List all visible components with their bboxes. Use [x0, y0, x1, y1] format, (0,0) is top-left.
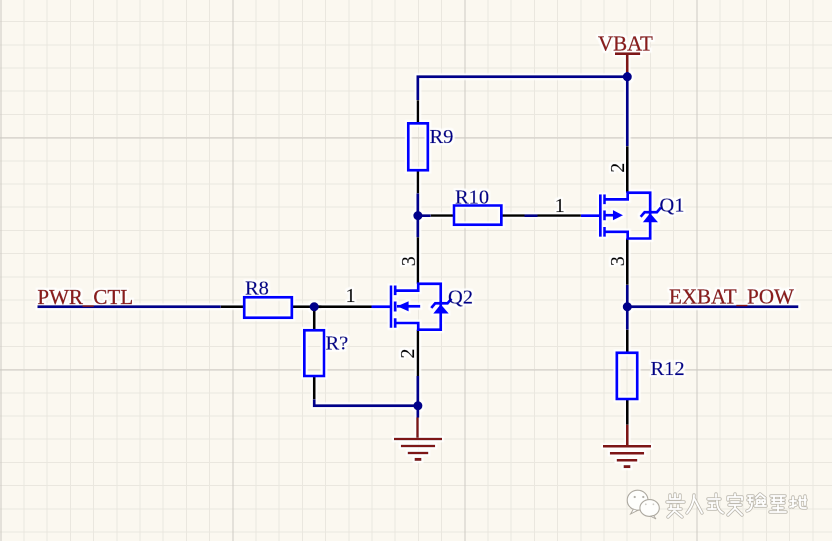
svg-text:1: 1: [555, 195, 565, 217]
svg-text:3: 3: [398, 256, 420, 266]
wechat bubble icon: [627, 490, 659, 519]
wire PWR_CTL rail: [38, 305, 322, 308]
resistor R12: [617, 353, 637, 399]
transistor Q1 (P-MOSFET): [600, 146, 661, 285]
wire EXBAT rail: [627, 305, 798, 308]
resistor R?: [304, 330, 324, 376]
svg-text:R10: R10: [455, 187, 489, 209]
watermark text 嵌入式实验基地 (approximated glyph strokes): [667, 494, 806, 517]
resistor R10: [454, 206, 501, 225]
svg-text:PWR_CTL: PWR_CTL: [37, 285, 133, 309]
transistor Q2 (N-MOSFET): [391, 237, 452, 376]
svg-text:2: 2: [397, 349, 419, 359]
resistor R8: [244, 297, 292, 317]
pin leads black: [417, 100, 420, 193]
svg-text:EXBAT_POW: EXBAT_POW: [669, 284, 794, 308]
gate pin blue stubs: [372, 305, 392, 308]
svg-text:R8: R8: [245, 277, 269, 299]
power port VBAT bar: [615, 54, 640, 72]
wire Q2 source down to ground junction: [416, 376, 419, 418]
junction node VBAT: [623, 72, 632, 81]
wire R? bottom corner to junction: [314, 399, 418, 406]
svg-text:1: 1: [346, 285, 356, 307]
svg-text:3: 3: [607, 256, 629, 266]
ground GND1 (left): [394, 418, 442, 460]
wire top horizontal VBAT rail: [418, 77, 627, 101]
svg-text:R9: R9: [430, 126, 454, 148]
watermark logo: [627, 490, 806, 519]
junction node R9/R10/Q2: [413, 211, 422, 220]
wire R12 stubs: [626, 307, 629, 330]
svg-text:R?: R?: [326, 332, 349, 354]
junction node R8/R?: [310, 302, 319, 311]
wire vertical right column upper: [626, 72, 629, 307]
junction node EXBAT: [623, 302, 632, 311]
ground GND2 (right): [603, 425, 651, 467]
junction node Q2-source/ground: [413, 401, 422, 410]
resistor R9: [408, 123, 428, 170]
wire R10 to Q1 gate: [418, 214, 538, 217]
svg-text:VBAT: VBAT: [598, 31, 653, 55]
svg-text:2: 2: [607, 163, 629, 173]
svg-text:R12: R12: [651, 358, 685, 380]
svg-text:Q2: Q2: [448, 287, 473, 309]
wire vertical left column upper: [416, 193, 419, 237]
svg-text:Q1: Q1: [660, 194, 685, 216]
